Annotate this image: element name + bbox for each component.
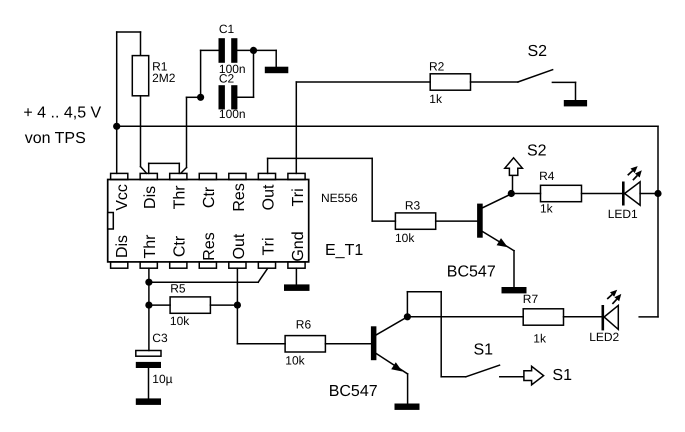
svg-text:1k: 1k bbox=[429, 92, 443, 106]
svg-text:Out: Out bbox=[231, 233, 248, 259]
svg-text:Vcc: Vcc bbox=[114, 184, 131, 211]
svg-text:NE556: NE556 bbox=[321, 191, 358, 205]
svg-text:C2: C2 bbox=[219, 71, 235, 85]
svg-text:Res: Res bbox=[231, 183, 248, 211]
svg-text:Tri: Tri bbox=[261, 237, 278, 255]
svg-text:Ctr: Ctr bbox=[201, 186, 218, 208]
svg-text:1k: 1k bbox=[533, 332, 547, 346]
svg-text:2M2: 2M2 bbox=[152, 71, 176, 85]
svg-text:R5: R5 bbox=[170, 281, 186, 295]
svg-text:10k: 10k bbox=[395, 231, 415, 245]
svg-text:E_T1: E_T1 bbox=[325, 242, 363, 259]
svg-text:1k: 1k bbox=[540, 202, 554, 216]
svg-text:+ 4 .. 4,5 V: + 4 .. 4,5 V bbox=[23, 104, 101, 121]
svg-text:Out: Out bbox=[261, 184, 278, 210]
svg-text:LED2: LED2 bbox=[589, 330, 619, 344]
svg-text:R2: R2 bbox=[429, 59, 445, 73]
svg-text:Tri: Tri bbox=[290, 188, 307, 206]
svg-text:Dis: Dis bbox=[142, 186, 159, 209]
svg-text:S1: S1 bbox=[474, 341, 494, 358]
svg-text:S2: S2 bbox=[528, 43, 548, 60]
svg-text:S2: S2 bbox=[527, 143, 547, 160]
svg-text:R3: R3 bbox=[405, 199, 421, 213]
svg-text:von TPS: von TPS bbox=[25, 130, 86, 147]
svg-text:Ctr: Ctr bbox=[172, 235, 189, 257]
svg-text:R6: R6 bbox=[296, 317, 312, 331]
svg-text:LED1: LED1 bbox=[608, 207, 638, 221]
svg-text:Res: Res bbox=[201, 232, 218, 260]
svg-text:Dis: Dis bbox=[114, 235, 131, 258]
svg-text:R7: R7 bbox=[523, 292, 539, 306]
svg-text:10k: 10k bbox=[170, 314, 190, 328]
svg-text:C3: C3 bbox=[152, 331, 168, 345]
svg-text:BC547: BC547 bbox=[447, 263, 496, 280]
svg-text:Thr: Thr bbox=[172, 185, 189, 210]
svg-text:Thr: Thr bbox=[142, 234, 159, 259]
svg-text:10k: 10k bbox=[285, 354, 305, 368]
svg-text:C1: C1 bbox=[219, 22, 235, 36]
svg-text:S1: S1 bbox=[552, 367, 572, 384]
svg-text:BC547: BC547 bbox=[329, 383, 378, 400]
svg-text:Gnd: Gnd bbox=[290, 231, 307, 261]
svg-text:100n: 100n bbox=[219, 107, 246, 121]
svg-text:R4: R4 bbox=[539, 169, 555, 183]
svg-text:10µ: 10µ bbox=[152, 372, 172, 386]
